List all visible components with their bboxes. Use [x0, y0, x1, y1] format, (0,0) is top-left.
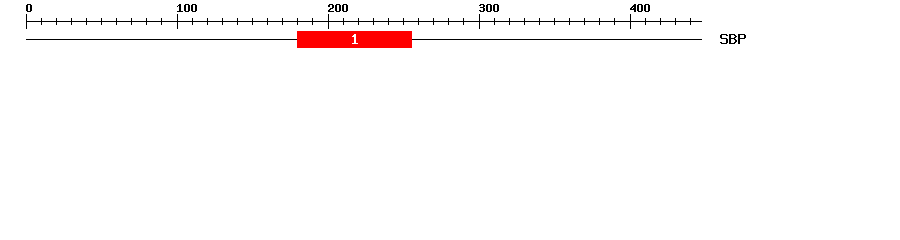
- tick label 100: [177, 4, 197, 12]
- tick label 0: [26, 4, 32, 12]
- feature label 1 (white): [352, 34, 358, 44]
- feature track connector line: [26, 39, 702, 40]
- major tick 400: [630, 14, 631, 29]
- tick label 400: [630, 4, 650, 12]
- ruler axis line: [26, 21, 702, 22]
- track label SBP: [720, 34, 746, 44]
- minor ticks every 10 units: [41, 18, 691, 25]
- tick label 300: [479, 4, 499, 12]
- major tick 200: [328, 14, 329, 29]
- tick label 200: [328, 4, 348, 12]
- major tick 300: [479, 14, 480, 29]
- major tick 0: [26, 14, 27, 29]
- major tick 100: [177, 14, 178, 29]
- feature box (red): [297, 31, 412, 48]
